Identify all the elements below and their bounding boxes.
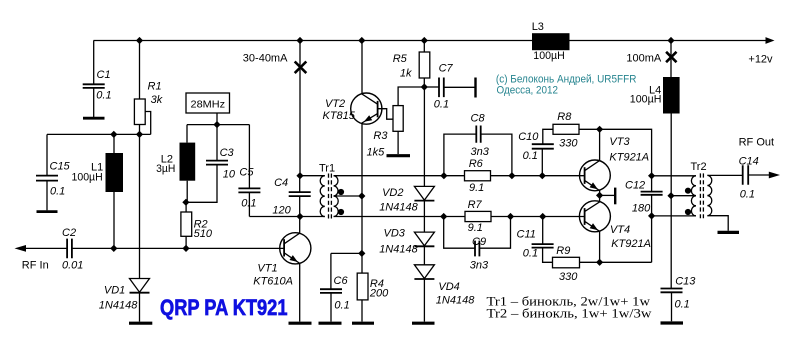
- capacitor C14: [743, 165, 749, 185]
- wire VT2 base dogleg: [378, 109, 393, 120]
- inductor L4 feed: [670, 41, 672, 78]
- inductor L3: [532, 33, 570, 50]
- transformer Tr1: [320, 176, 325, 217]
- node VT3 emitter-VT4 collector: [596, 192, 603, 199]
- svg-text:C10: C10: [518, 131, 539, 143]
- capacitor C7: [424, 86, 439, 88]
- break mark 30-40mA: [295, 62, 307, 74]
- wire Tr2 center tap: [671, 195, 696, 197]
- diode VD2: [414, 186, 434, 200]
- node bus-R1-VD1: [136, 131, 143, 138]
- node rail-L4: [667, 37, 674, 44]
- Tr2 winding phase dot lower: [685, 209, 691, 215]
- wire diode chain: [423, 87, 425, 186]
- svg-text:0.1: 0.1: [434, 98, 449, 110]
- svg-text:VT2: VT2: [325, 98, 345, 110]
- svg-text:28MHz: 28MHz: [191, 98, 226, 110]
- svg-text:VD3: VD3: [384, 227, 406, 239]
- ground R4: [352, 322, 374, 325]
- svg-text:100µH: 100µH: [630, 94, 662, 106]
- wire Tr1 secondary mid tap: [334, 195, 362, 197]
- ground VD4: [412, 322, 435, 325]
- svg-text:C7: C7: [439, 62, 454, 74]
- capacitor C5: [248, 125, 250, 188]
- label box 28MHz: [216, 113, 218, 125]
- svg-text:9.1: 9.1: [468, 222, 483, 234]
- svg-text:R3: R3: [373, 130, 388, 142]
- svg-text:10: 10: [223, 168, 236, 180]
- svg-text:1N4148: 1N4148: [379, 243, 418, 255]
- svg-text:C4: C4: [274, 177, 288, 189]
- svg-text:Tr1: Tr1: [319, 163, 335, 175]
- wire Tr1 primary bottom: [249, 216, 324, 218]
- transistor VT4: [579, 201, 610, 232]
- capacitor C11: [542, 217, 544, 244]
- svg-text:KT921A: KT921A: [611, 238, 651, 250]
- inductor L1: [113, 134, 115, 153]
- capacitor C6: [330, 253, 332, 288]
- wire R1 wiper tap: [145, 112, 151, 135]
- node rail-VT2 collector: [358, 37, 365, 44]
- stub terminal C7: [474, 78, 476, 98]
- wire VD1 branch: [139, 134, 141, 278]
- node L4-Tr2 center tap: [667, 192, 674, 199]
- resistor R8: [553, 124, 579, 134]
- svg-text:KT921A: KT921A: [609, 152, 649, 164]
- svg-text:1N4148: 1N4148: [379, 201, 418, 213]
- svg-text:3k: 3k: [151, 94, 163, 106]
- svg-text:C15: C15: [50, 160, 71, 172]
- svg-text:L3: L3: [532, 21, 544, 33]
- capacitor C2: [67, 239, 72, 259]
- wire C6 branch: [331, 252, 362, 254]
- node rail-R5: [421, 37, 428, 44]
- node C12 bottom-Tr2: [648, 212, 655, 219]
- svg-text:C12: C12: [625, 179, 645, 191]
- ground C1 terminal bar: [83, 117, 105, 120]
- svg-text:3n3: 3n3: [471, 146, 490, 158]
- svg-text:Tr2 – бинокль, 1w+ 1w/3w: Tr2 – бинокль, 1w+ 1w/3w: [487, 306, 652, 320]
- svg-text:R5: R5: [393, 53, 408, 65]
- wire Tr2 secondary top / RF out: [707, 174, 742, 176]
- inductor L2: [186, 125, 188, 143]
- resistor R2: [185, 202, 187, 212]
- svg-text:VD2: VD2: [382, 187, 403, 199]
- svg-text:120: 120: [272, 205, 291, 217]
- svg-text:3µH: 3µH: [156, 163, 175, 175]
- node C4-Tr1-VT1 collector: [296, 213, 303, 220]
- svg-text:VT1: VT1: [257, 263, 277, 275]
- svg-text:100µH: 100µH: [72, 171, 103, 183]
- wire tank top: [187, 124, 249, 126]
- svg-text:Tr2: Tr2: [691, 161, 707, 173]
- svg-text:R6: R6: [469, 158, 484, 170]
- diode VD1: [130, 279, 150, 293]
- wire Tr2 primary bottom: [652, 215, 696, 217]
- wire Tr1 feed from rail: [299, 41, 301, 176]
- svg-text:R8: R8: [557, 111, 572, 123]
- node C9-R7 right: [507, 213, 514, 220]
- Tr2 winding phase dot upper: [685, 188, 691, 194]
- wire RF In line: [20, 247, 284, 249]
- svg-text:100µH: 100µH: [533, 50, 565, 62]
- svg-text:VD1: VD1: [104, 285, 125, 297]
- capacitor C10: [541, 149, 543, 176]
- resistor R9: [553, 257, 580, 268]
- svg-text:1N4148: 1N4148: [436, 295, 475, 307]
- svg-text:C3: C3: [220, 147, 235, 159]
- node C10 bottom: [539, 172, 546, 179]
- node tank-28MHz: [213, 121, 220, 128]
- capacitor C13: [670, 196, 672, 288]
- svg-text:R1: R1: [148, 81, 162, 93]
- ground R3: [387, 154, 411, 157]
- svg-text:C13: C13: [675, 276, 696, 288]
- transistor VT1: [280, 233, 311, 264]
- svg-text:C5: C5: [239, 166, 254, 178]
- svg-text:200: 200: [369, 288, 389, 300]
- resistor R5: [423, 41, 425, 53]
- ground C6: [319, 322, 342, 325]
- svg-text:C8: C8: [471, 113, 486, 125]
- svg-text:VD4: VD4: [438, 281, 459, 293]
- node rfin-R2: [182, 245, 189, 252]
- resistor R4: [361, 253, 363, 273]
- node C8-R6 left: [440, 172, 447, 179]
- svg-text:C1: C1: [97, 69, 111, 81]
- svg-text:330: 330: [559, 271, 578, 283]
- capacitor C1: [93, 41, 95, 84]
- svg-text:+12v: +12v: [748, 54, 773, 66]
- wire Tr2 secondary bottom to ground: [707, 216, 728, 231]
- svg-text:0.1: 0.1: [96, 90, 111, 102]
- Tr1 winding phase dot lower: [338, 209, 344, 215]
- Tr1 winding phase dot upper: [338, 189, 344, 195]
- resistor R6: [465, 171, 491, 181]
- svg-text:VT4: VT4: [610, 224, 630, 236]
- node bus-L1: [110, 131, 117, 138]
- node R5-R3-C7-VD2: [421, 83, 428, 90]
- svg-text:9.1: 9.1: [469, 182, 484, 194]
- node rail-Tr1 feed: [296, 37, 303, 44]
- ground C13: [661, 321, 684, 324]
- svg-text:C2: C2: [62, 227, 76, 239]
- svg-text:1N4148: 1N4148: [99, 300, 138, 312]
- node C8-R6 right: [508, 172, 515, 179]
- capacitor C9 loop: [444, 217, 475, 249]
- resistor R1 (trimmer): [139, 41, 141, 100]
- svg-text:330: 330: [559, 138, 578, 150]
- ground VT1 emitter: [289, 322, 312, 325]
- svg-text:C14: C14: [739, 155, 759, 167]
- svg-text:0.1: 0.1: [523, 248, 538, 260]
- wire VT4 base line: [334, 216, 585, 218]
- wire collector to C12 top: [600, 129, 652, 191]
- node L2-C3-R2: [182, 199, 189, 206]
- wire +12V top rail: [94, 40, 768, 42]
- node Tr1 primary top: [296, 172, 303, 179]
- node R8-VT3 collector: [596, 126, 603, 133]
- svg-text:0.1: 0.1: [334, 300, 349, 312]
- RF In arrow: [15, 245, 27, 252]
- svg-text:C6: C6: [334, 275, 349, 287]
- resistor R3 (trimmer): [393, 106, 403, 132]
- svg-text:Одесса, 2012: Одесса, 2012: [497, 84, 559, 96]
- svg-text:R7: R7: [468, 199, 483, 211]
- RF Out arrow: [769, 172, 780, 179]
- svg-text:180: 180: [632, 203, 651, 215]
- +12v supply arrow: [766, 37, 775, 44]
- svg-text:0.01: 0.01: [62, 259, 83, 271]
- node rail-R1: [136, 37, 143, 44]
- ground Tr2 secondary: [718, 231, 740, 234]
- svg-text:RF In: RF In: [22, 259, 49, 271]
- wire bias bus: [47, 133, 151, 135]
- svg-text:1k5: 1k5: [367, 146, 386, 158]
- svg-text:0.1: 0.1: [241, 198, 256, 210]
- node rfin-L1: [110, 245, 117, 252]
- transistor VT2: [351, 93, 382, 124]
- svg-text:R9: R9: [556, 245, 570, 257]
- wire VT3 base line: [334, 175, 585, 177]
- svg-text:C9: C9: [472, 236, 486, 248]
- svg-text:KT610A: KT610A: [253, 275, 293, 287]
- transformer Tr2: [691, 176, 696, 196]
- svg-text:510: 510: [194, 228, 213, 240]
- node tap-VT2 emitter: [358, 192, 365, 199]
- capacitor C3: [216, 125, 218, 161]
- transistor VT3: [580, 160, 611, 191]
- svg-text:100mA: 100mA: [626, 52, 662, 64]
- svg-text:0.1: 0.1: [50, 186, 65, 198]
- ground VD1: [129, 322, 152, 325]
- node R9-VT4 emitter: [596, 259, 603, 266]
- diode VD4: [414, 265, 434, 279]
- svg-text:30-40mA: 30-40mA: [243, 52, 288, 64]
- diode VD3: [414, 232, 434, 246]
- node C9-R7 left: [440, 213, 447, 220]
- resistor R7: [465, 211, 491, 221]
- svg-text:0.1: 0.1: [675, 299, 690, 311]
- svg-text:0.1: 0.1: [523, 150, 538, 162]
- wire Tr1 primary top: [300, 175, 325, 177]
- break mark 100mA: [666, 52, 676, 62]
- node C11 top: [539, 213, 546, 220]
- ground C15 terminal bar: [37, 210, 58, 213]
- svg-text:KT815: KT815: [323, 110, 356, 122]
- svg-text:VT3: VT3: [609, 136, 630, 148]
- capacitor C8 loop: [444, 134, 476, 176]
- stub terminal VT3/VT4 midpoint: [600, 194, 615, 196]
- capacitor C12: [641, 192, 663, 195]
- wire Tr2 primary top: [652, 175, 696, 177]
- svg-text:1k: 1k: [400, 68, 412, 80]
- svg-text:0.1: 0.1: [740, 188, 755, 200]
- capacitor C4: [299, 176, 301, 192]
- svg-text:3n3: 3n3: [470, 260, 489, 272]
- node VT2 emitter-R4-C6: [358, 250, 365, 257]
- svg-text:RF Out: RF Out: [739, 137, 774, 149]
- capacitor C15: [46, 134, 48, 175]
- svg-text:C11: C11: [517, 228, 536, 240]
- wire VT4 emitter to C12 bottom: [651, 195, 653, 262]
- node C12 top-Tr2: [648, 172, 655, 179]
- svg-text:QRP PA KT921: QRP PA KT921: [160, 295, 288, 320]
